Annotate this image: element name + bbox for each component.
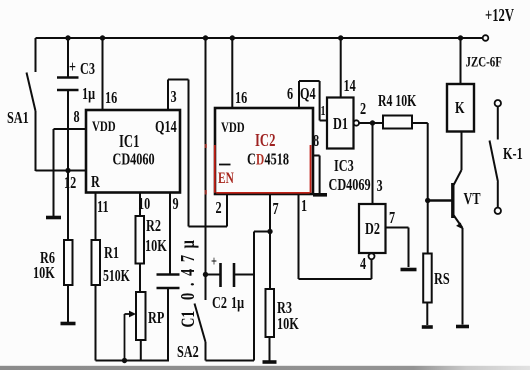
svg-text:16: 16 xyxy=(235,89,247,107)
svg-text:1μ: 1μ xyxy=(231,294,245,312)
svg-text:4: 4 xyxy=(360,255,367,273)
svg-text:16: 16 xyxy=(105,89,117,107)
svg-text:+12V: +12V xyxy=(485,6,514,26)
svg-text:C1: C1 xyxy=(177,311,199,328)
svg-text:+: + xyxy=(69,58,76,76)
svg-text:RS: RS xyxy=(434,270,450,288)
svg-text:10K: 10K xyxy=(33,264,55,282)
svg-text:VT: VT xyxy=(464,190,481,208)
svg-text:R: R xyxy=(91,173,100,191)
svg-text:R4 10K: R4 10K xyxy=(378,92,416,110)
svg-text:IC3: IC3 xyxy=(334,157,354,175)
svg-text:2: 2 xyxy=(360,100,366,118)
svg-text:6: 6 xyxy=(287,85,293,103)
svg-text:0.47μ: 0.47μ xyxy=(176,234,199,300)
svg-text:R2: R2 xyxy=(146,217,161,235)
svg-text:R1: R1 xyxy=(104,244,119,262)
svg-text:8: 8 xyxy=(313,132,319,150)
svg-text:D2: D2 xyxy=(365,220,380,238)
svg-text:10K: 10K xyxy=(145,237,167,255)
svg-text:RP: RP xyxy=(148,309,164,327)
svg-text:1: 1 xyxy=(321,102,326,118)
svg-text:VDD: VDD xyxy=(92,117,116,134)
svg-text:510K: 510K xyxy=(103,267,130,285)
svg-text:11: 11 xyxy=(97,198,109,216)
svg-text:+: + xyxy=(211,253,217,269)
svg-text:VDD: VDD xyxy=(221,118,245,135)
svg-text:D1: D1 xyxy=(333,115,348,133)
svg-text:14: 14 xyxy=(344,77,357,95)
svg-text:K: K xyxy=(455,99,465,117)
svg-text:3: 3 xyxy=(171,88,177,106)
svg-text:C2: C2 xyxy=(212,294,227,312)
svg-text:EN: EN xyxy=(218,169,234,186)
svg-text:CD4069: CD4069 xyxy=(329,176,371,194)
svg-text:SA2: SA2 xyxy=(177,343,199,361)
svg-text:C: C xyxy=(247,151,256,169)
svg-text:1: 1 xyxy=(301,197,307,215)
svg-text:8: 8 xyxy=(74,108,80,126)
svg-text:D: D xyxy=(256,151,264,168)
svg-text:1μ: 1μ xyxy=(82,85,96,103)
svg-text:10: 10 xyxy=(138,195,150,213)
svg-text:JZC-6F: JZC-6F xyxy=(466,53,502,70)
svg-text:K-1: K-1 xyxy=(503,145,523,163)
svg-text:10K: 10K xyxy=(277,315,299,333)
svg-text:12: 12 xyxy=(64,174,76,192)
svg-text:9: 9 xyxy=(173,195,179,213)
svg-text:CD4060: CD4060 xyxy=(113,151,155,169)
svg-text:3: 3 xyxy=(377,177,383,195)
svg-text:4518: 4518 xyxy=(265,151,289,169)
svg-text:IC1: IC1 xyxy=(119,132,139,152)
svg-text:Q14: Q14 xyxy=(155,118,177,136)
svg-text:SA1: SA1 xyxy=(7,109,29,127)
svg-text:Q4: Q4 xyxy=(300,85,316,103)
svg-text:IC2: IC2 xyxy=(255,131,275,151)
svg-text:7: 7 xyxy=(273,200,280,218)
svg-text:C3: C3 xyxy=(80,60,95,78)
svg-text:2: 2 xyxy=(216,199,222,217)
svg-text:7: 7 xyxy=(389,209,396,227)
